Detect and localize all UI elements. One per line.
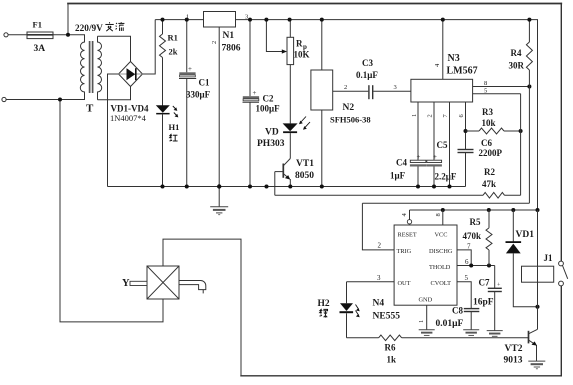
- svg-text:47k: 47k: [482, 179, 496, 189]
- glyph 红 (red): [170, 134, 178, 141]
- wire Rp to VD: [289, 65, 291, 124]
- svg-text:C3: C3: [362, 58, 373, 68]
- timer N4 NE555: [394, 225, 457, 305]
- svg-text:F1: F1: [33, 20, 42, 30]
- ground N4: [419, 330, 435, 336]
- wire 6V rail N1 to right: [236, 20, 538, 210]
- svg-text:1: 1: [411, 114, 418, 117]
- IR receiver N2 SFH506-38: [311, 70, 333, 110]
- svg-text:+: +: [417, 153, 421, 161]
- wire VT1 base to R2 line: [274, 172, 276, 196]
- wire bridge right corner to V+ rail: [143, 20, 156, 74]
- LED H1: [156, 105, 170, 112]
- terminal input upper: [4, 33, 8, 37]
- svg-text:2: 2: [427, 114, 434, 117]
- svg-text:R3: R3: [482, 107, 493, 117]
- glyph 交 (AC): [105, 22, 113, 31]
- svg-text:C4: C4: [396, 158, 407, 168]
- transformer T secondary winding: [98, 36, 131, 100]
- junction dot fuse/top: [66, 33, 70, 37]
- wire bridge left corner to ground rail: [108, 74, 119, 187]
- capacitor C2: [249, 20, 251, 97]
- junction dot lower AC: [58, 98, 62, 102]
- svg-text:3: 3: [394, 84, 397, 91]
- svg-text:1N4007*4: 1N4007*4: [110, 113, 147, 123]
- svg-text:2: 2: [378, 242, 382, 250]
- wire OUT pin3: [347, 281, 395, 283]
- svg-text:0.01μF: 0.01μF: [436, 319, 464, 329]
- svg-text:220/9V: 220/9V: [75, 24, 103, 34]
- svg-text:2k: 2k: [169, 47, 178, 57]
- svg-text:3: 3: [377, 274, 381, 282]
- solenoid valve Y: [147, 266, 179, 299]
- svg-text:1: 1: [418, 320, 425, 323]
- transformer core: [90, 41, 93, 93]
- wire valve top to bottom rail: [163, 239, 241, 376]
- wire LM567 out (pin8) down to TRIG line: [528, 87, 530, 204]
- svg-text:0.1μF: 0.1μF: [356, 70, 378, 80]
- svg-text:R5: R5: [470, 217, 481, 227]
- svg-text:VD: VD: [265, 128, 279, 138]
- wire fuse input: [9, 34, 28, 36]
- resistor R3: [466, 130, 480, 132]
- svg-text:SFH506-38: SFH506-38: [330, 115, 371, 125]
- terminal input lower: [2, 97, 6, 101]
- svg-text:R4: R4: [511, 48, 522, 58]
- wire secondary top to bridge: [98, 36, 131, 61]
- svg-text:7: 7: [467, 243, 471, 251]
- svg-text:TRIG: TRIG: [397, 248, 412, 255]
- capacitor C7: [494, 266, 496, 289]
- svg-text:N3: N3: [448, 53, 460, 64]
- capacitor C1: [186, 20, 188, 73]
- capacitor C8: [464, 309, 480, 312]
- svg-text:CVOLT: CVOLT: [431, 280, 452, 287]
- wire secondary bottom to bridge: [98, 87, 131, 100]
- svg-text:5: 5: [484, 88, 487, 95]
- svg-text:VD1-VD4: VD1-VD4: [111, 104, 149, 114]
- svg-text:LM567: LM567: [447, 66, 478, 77]
- resistor R6: [379, 335, 402, 341]
- wire right border lower: [560, 286, 562, 376]
- svg-text:8: 8: [484, 80, 487, 87]
- tone decoder N3 LM567: [411, 79, 473, 102]
- wire pin5 vertical: [520, 94, 522, 196]
- svg-text:VCC: VCC: [435, 232, 448, 239]
- resistor R2 and base line: [275, 194, 483, 196]
- svg-text:C1: C1: [199, 78, 210, 88]
- svg-text:R6: R6: [385, 343, 396, 353]
- ground C7: [487, 331, 503, 337]
- wire right border upper (to relay switch): [560, 4, 562, 262]
- wire 555 out line with R6 to VT2 base: [347, 337, 379, 339]
- resistor R5: [486, 210, 492, 266]
- wire DISCHG pin7: [457, 250, 471, 266]
- svg-text:VT1: VT1: [296, 159, 314, 169]
- potentiometer Rp: [289, 20, 291, 38]
- wire GND pin1: [426, 305, 428, 330]
- wire lower terminal to transformer: [6, 99, 85, 101]
- svg-text:6: 6: [465, 258, 469, 266]
- LED H2: [346, 282, 348, 304]
- svg-text:C2: C2: [263, 94, 274, 104]
- svg-text:VT2: VT2: [505, 344, 523, 354]
- svg-text:30R: 30R: [509, 61, 525, 71]
- svg-text:RESET: RESET: [398, 232, 417, 239]
- svg-text:1: 1: [186, 14, 189, 21]
- svg-text:N2: N2: [343, 103, 355, 113]
- svg-text:330μF: 330μF: [186, 90, 211, 100]
- svg-text:+: +: [188, 65, 192, 73]
- ground main: [210, 207, 228, 215]
- wiper wire Rp: [266, 20, 282, 52]
- svg-text:OUT: OUT: [398, 280, 411, 287]
- glyph 绿 (green): [320, 309, 328, 318]
- transistor VT2 9013: [529, 307, 538, 361]
- svg-text:7806: 7806: [222, 44, 241, 54]
- svg-text:3: 3: [245, 14, 248, 21]
- wire junction up to top rail: [67, 4, 69, 35]
- relay J1: [537, 210, 539, 307]
- ground VT2: [528, 361, 545, 369]
- svg-text:+: +: [253, 89, 257, 97]
- capacitor C5: [433, 102, 435, 160]
- capacitor C6: [465, 102, 467, 149]
- svg-text:3A: 3A: [34, 44, 46, 54]
- svg-text:VD1: VD1: [516, 230, 535, 240]
- wire fuse to transformer: [53, 34, 85, 36]
- wire valve loop left: down from lower AC wire to valve bottom: [60, 100, 163, 322]
- svg-text:PH303: PH303: [257, 139, 285, 149]
- diode VD1: [512, 210, 514, 242]
- regulator N1 7806: [204, 12, 236, 28]
- bridge rectifier VD1-VD4: [119, 62, 143, 87]
- svg-text:C8: C8: [452, 306, 463, 316]
- svg-text:J1: J1: [544, 253, 554, 263]
- glyph 流 (AC): [116, 22, 125, 31]
- svg-text:16pF: 16pF: [473, 298, 494, 308]
- svg-text:470k: 470k: [463, 231, 482, 241]
- ground C8: [463, 330, 479, 336]
- svg-text:T: T: [86, 103, 94, 115]
- wire THOLD pin6: [457, 265, 495, 267]
- wire top rail: [68, 3, 561, 5]
- svg-text:NE555: NE555: [373, 312, 401, 322]
- wire bottom rail: [241, 375, 561, 377]
- svg-text:GND: GND: [419, 297, 433, 304]
- svg-text:C7: C7: [479, 278, 490, 288]
- svg-text:THOLD: THOLD: [429, 264, 451, 271]
- svg-text:N4: N4: [373, 299, 385, 309]
- svg-text:2: 2: [344, 84, 347, 91]
- transformer T primary winding: [80, 35, 84, 100]
- svg-text:H2: H2: [318, 299, 330, 309]
- capacitor C4: [417, 102, 419, 160]
- svg-text:10K: 10K: [294, 50, 310, 60]
- svg-text:C5: C5: [437, 140, 448, 150]
- svg-text:8050: 8050: [295, 171, 314, 181]
- svg-text:H1: H1: [169, 122, 180, 132]
- svg-text:9013: 9013: [504, 356, 523, 366]
- N3 pin7 ground wire: [449, 102, 451, 187]
- resistor R4: [526, 20, 532, 87]
- wire reset pin with bubble: [409, 210, 411, 220]
- wire ground rail: [108, 186, 466, 188]
- svg-text:2: 2: [211, 41, 218, 44]
- svg-text:8: 8: [435, 213, 442, 216]
- svg-text:+: +: [433, 153, 437, 161]
- capacitor C3: [333, 90, 369, 92]
- resistor R1: [160, 20, 166, 106]
- svg-text:R: R: [296, 39, 303, 49]
- wire N1 pin2 to ground: [218, 27, 220, 207]
- svg-text:R2: R2: [484, 167, 495, 177]
- svg-text:1μF: 1μF: [390, 171, 406, 181]
- svg-text:5: 5: [465, 274, 469, 282]
- N3 pin5 wire: [473, 93, 521, 95]
- faucet spout: [179, 281, 206, 294]
- wire CVOLT pin5: [457, 282, 471, 309]
- svg-text:100μF: 100μF: [256, 104, 281, 114]
- svg-text:2200P: 2200P: [479, 148, 503, 158]
- relay switch contacts: [559, 261, 564, 266]
- photodiode VD PH303: [283, 123, 298, 131]
- svg-text:2.2μF: 2.2μF: [435, 172, 457, 182]
- wire VD to VT1 collector: [289, 133, 291, 158]
- svg-text:C6: C6: [481, 138, 492, 148]
- svg-text:R1: R1: [168, 33, 178, 43]
- transistor VT1 8050: [275, 159, 291, 187]
- svg-text:10k: 10k: [482, 118, 496, 128]
- svg-text:1k: 1k: [387, 355, 397, 365]
- wire raw rail to N1: [155, 19, 203, 21]
- svg-text:Y: Y: [122, 278, 130, 289]
- svg-text:DISCHG: DISCHG: [429, 248, 453, 255]
- wire VCC pin: [442, 210, 444, 225]
- wire +V rail of 555: [410, 209, 538, 211]
- junction dot (ground rail mid): [265, 185, 269, 189]
- fuse F1: [27, 32, 53, 39]
- N3 pin8 wire: [473, 86, 530, 88]
- svg-text:N1: N1: [223, 31, 235, 41]
